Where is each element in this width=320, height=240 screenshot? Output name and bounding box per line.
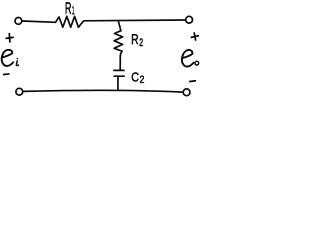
svg-text:2: 2 — [140, 75, 145, 86]
plus sign: input polarity — [6, 34, 13, 42]
terminal: output top-right — [186, 16, 193, 23]
svg-text:R: R — [131, 32, 139, 48]
resistor R1 — [56, 16, 82, 27]
wire: top-left (input terminal to R1) — [22, 21, 55, 22]
label C2 — [131, 69, 144, 86]
minus sign: input polarity — [4, 73, 9, 76]
terminal: input bottom-left — [16, 88, 23, 95]
wire: C2 to bottom wire — [117, 76, 119, 89]
wire: top-right (R1 to output terminal, through node) — [82, 20, 185, 23]
terminal: output bottom-right — [183, 89, 190, 96]
label e_i (input voltage) — [2, 50, 19, 66]
wire: stub from top node down to R2 — [118, 21, 121, 31]
label R1 — [65, 0, 75, 18]
resistor R2 — [114, 31, 123, 54]
label R2 — [131, 32, 143, 49]
capacitor C2 — [114, 70, 124, 76]
label e_o (output voltage) — [182, 50, 199, 67]
minus sign: output polarity — [190, 80, 196, 83]
svg-text:R: R — [65, 0, 72, 18]
wire: bottom (input terminal to output terminal) — [24, 90, 183, 92]
plus sign: output polarity — [191, 33, 198, 40]
svg-text:2: 2 — [139, 37, 143, 49]
svg-text:C: C — [131, 69, 139, 84]
wire: R2 to C2 — [119, 54, 122, 70]
svg-text:1: 1 — [72, 3, 75, 17]
terminal: input top-left — [15, 18, 22, 25]
